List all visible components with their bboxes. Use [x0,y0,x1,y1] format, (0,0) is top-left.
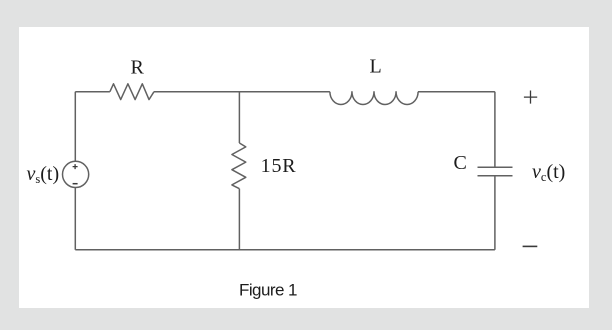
wire middle branch lower [238,189,240,250]
minus sign output polarity [523,245,538,247]
wire top-right segment [418,91,495,93]
capacitor C top plate [478,166,513,168]
wire bottom [75,249,495,251]
plus sign inside source [73,164,78,169]
svg-text:C: C [454,152,467,174]
svg-text:vc(t): vc(t) [532,161,565,184]
svg-text:15R: 15R [261,155,297,177]
wire right lower [494,176,496,250]
wire top-middle segment [154,91,330,93]
white page card [19,27,589,308]
plus sign output polarity [524,91,537,104]
wire left lower [74,188,76,250]
wire middle branch upper [238,92,240,143]
wire top-left segment [75,91,110,93]
svg-text:R: R [131,57,145,79]
inductor L [330,92,418,105]
wire right upper [494,92,496,168]
wire left upper [74,92,76,162]
voltage source V1 circle [63,161,89,187]
minus sign inside source [73,183,78,185]
svg-text:vs(t): vs(t) [27,163,60,186]
resistor 15R [232,143,246,189]
capacitor C bottom plate [478,175,513,177]
resistor R [110,84,154,100]
svg-text:Figure 1: Figure 1 [239,280,297,299]
svg-text:L: L [370,56,382,78]
